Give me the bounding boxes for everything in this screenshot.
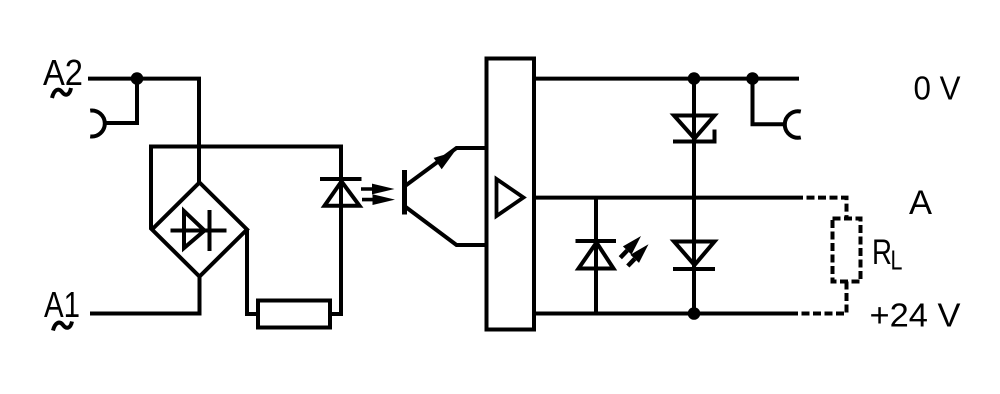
dashed wire load bottom to +24V rail xyxy=(797,282,847,314)
bridge rectifier B1 diamond xyxy=(152,183,247,277)
bridge diode triangle xyxy=(184,211,205,248)
wire +24V rail solid xyxy=(534,312,797,316)
wire junction dot down to test tap xyxy=(104,79,137,123)
phototransistor emitter lead xyxy=(405,207,487,246)
wire output tap to test socket xyxy=(753,79,786,125)
wire bridge bottom corner to A1 xyxy=(90,277,200,314)
dashed wire output A to load top xyxy=(795,198,847,219)
status LED branch vertical xyxy=(594,198,598,314)
test tap contact left xyxy=(90,111,105,137)
zener diode D2 triangle xyxy=(674,116,715,139)
phototransistor collector lead xyxy=(405,148,487,186)
status LED cathode bar xyxy=(576,239,617,243)
svg-text:RL: RL xyxy=(872,232,902,277)
wire zener diode branch vertical xyxy=(692,79,696,314)
svg-text:A: A xyxy=(909,184,932,222)
wire output A solid xyxy=(534,196,795,200)
junction dot +24V rail xyxy=(688,307,701,320)
phototransistor base bar xyxy=(402,170,407,215)
junction dot zener branch top xyxy=(688,72,701,85)
load resistor RL dashed body xyxy=(833,219,861,282)
svg-text:A2: A2 xyxy=(43,52,83,93)
diode D3 triangle xyxy=(674,242,715,266)
optocoupler LED cathode bar xyxy=(320,177,362,181)
diode D3 cathode bar xyxy=(673,267,715,271)
wire 0V rail xyxy=(534,77,799,81)
optocoupler light arrow upper xyxy=(361,184,395,195)
svg-text:0 V: 0 V xyxy=(914,70,961,107)
label RL xyxy=(872,232,902,277)
status LED light arrow lower xyxy=(628,244,649,266)
interface box U1 xyxy=(487,59,535,330)
bridge diode axis line xyxy=(171,229,227,233)
wire bridge left arm to LED anode (top loop) xyxy=(151,147,341,230)
wire bridge right arm down to resistor R1 xyxy=(247,230,258,315)
wire resistor R1 to LED cathode branch xyxy=(330,147,341,314)
svg-text:+24 V: +24 V xyxy=(870,297,961,334)
zener diode D2 cathode bar with tick xyxy=(673,130,715,142)
status LED light arrow upper xyxy=(620,236,641,258)
svg-text:A1: A1 xyxy=(44,284,80,325)
test tap contact right xyxy=(785,111,801,137)
wire A2 lead to bridge top corner xyxy=(88,79,199,183)
AC tilde under A1 xyxy=(53,322,72,331)
junction dot output tap xyxy=(746,72,759,85)
bridge diode cathode bar xyxy=(208,210,212,251)
AC tilde under A2 xyxy=(52,88,71,98)
status LED triangle xyxy=(579,243,614,269)
phototransistor collector arrow xyxy=(434,152,455,170)
resistor R1 body xyxy=(258,301,330,328)
optocoupler light arrow lower xyxy=(362,194,395,205)
junction dot on A2 wire xyxy=(131,72,144,85)
amplifier triangle inside box xyxy=(497,179,524,216)
optocoupler LED triangle xyxy=(325,181,360,205)
